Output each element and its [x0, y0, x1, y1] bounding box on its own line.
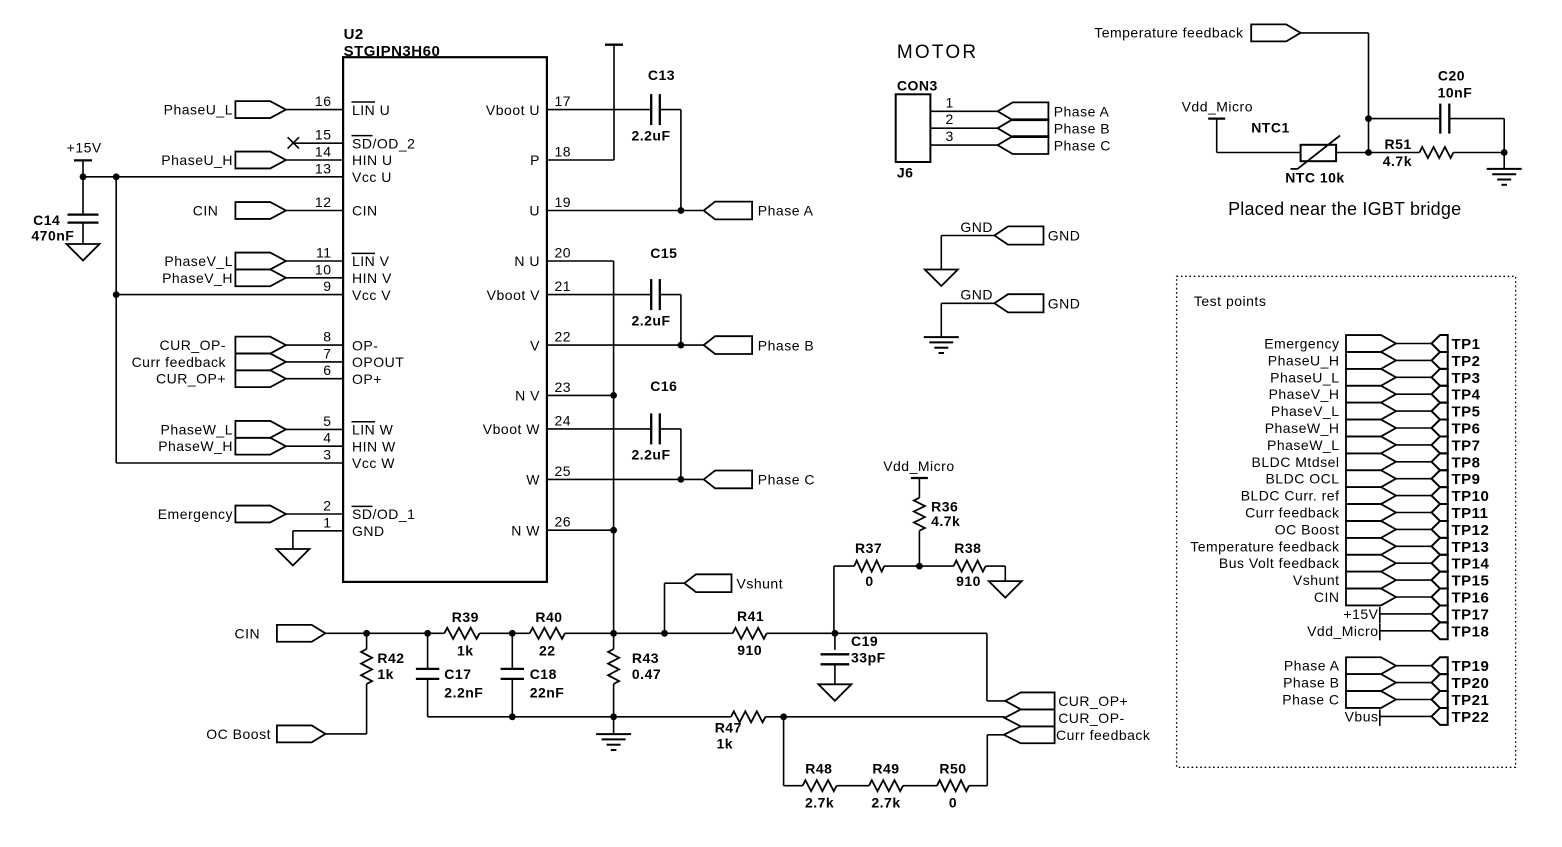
wire Curr feedback to pin 7 [286, 361, 343, 363]
IC U2 STGIPN3H60 body [343, 26, 547, 582]
svg-text:OC Boost: OC Boost [206, 726, 271, 742]
capacitor C13 2.2uF [631, 67, 675, 143]
svg-text:R41: R41 [737, 608, 764, 624]
svg-text:22nF: 22nF [530, 684, 565, 700]
svg-text:1k: 1k [717, 735, 734, 751]
junction +15V at C14 [80, 173, 87, 180]
wire main sense line segments [367, 632, 445, 634]
ground at pin 1 [276, 549, 309, 566]
svg-text:3: 3 [323, 447, 331, 463]
wire PhaseV_H to pin 10 [286, 277, 343, 279]
flag PhaseV_H (to pin 10) [162, 269, 286, 286]
svg-text:R49: R49 [872, 761, 899, 777]
flag PhaseW_L (to pin 5) [161, 421, 286, 438]
svg-text:N W: N W [511, 522, 540, 538]
flag PhaseW_H (to pin 4) [158, 438, 286, 455]
svg-text:Phase C: Phase C [1054, 137, 1111, 153]
flag CUR_OP+ [1005, 692, 1128, 709]
wire pin 1 GND stub [293, 530, 343, 532]
wire Temperature feedback to node [1301, 32, 1369, 34]
svg-text:2.7k: 2.7k [871, 795, 900, 811]
U2 pin 12 (CIN) number and name [315, 194, 378, 219]
resistor R36 4.7k [914, 498, 960, 531]
svg-text:R50: R50 [939, 761, 966, 777]
U2 pin 3 (Vcc W) number and name [323, 447, 395, 472]
test point TP21 (Phase C) [1282, 691, 1489, 709]
svg-text:Phase B: Phase B [1283, 675, 1339, 691]
svg-text:TP16: TP16 [1452, 590, 1490, 607]
svg-text:2.2nF: 2.2nF [444, 684, 483, 700]
U2 pin 6 (OP+) number and name [323, 362, 382, 387]
resistor R41 910 [733, 608, 767, 658]
svg-text:1: 1 [323, 514, 331, 530]
svg-text:CON3: CON3 [897, 77, 938, 93]
wire CUR_OP+ to pin 6 [286, 378, 343, 380]
svg-text:R39: R39 [452, 609, 479, 625]
svg-text:R42: R42 [377, 650, 404, 666]
svg-text:PhaseU_L: PhaseU_L [1270, 369, 1339, 385]
flag PhaseU_L (to pin 16) [164, 101, 286, 118]
test point TP18 (Vdd_Micro) [1307, 622, 1489, 640]
flag Curr feedback (to pin 7) [132, 353, 286, 370]
wire pin 18 (P) to rail [547, 159, 614, 161]
U2 pin 23 (N V) number and name [515, 379, 571, 404]
svg-text:Vcc U: Vcc U [352, 169, 392, 185]
svg-text:10nF: 10nF [1438, 85, 1473, 101]
thermistor NTC1 NTC 10k [1251, 119, 1345, 185]
test points dotted box [1177, 276, 1516, 767]
svg-text:23: 23 [555, 379, 572, 395]
svg-text:PhaseW_L: PhaseW_L [161, 421, 233, 437]
test point TP13 (Temperature feedback) [1190, 538, 1489, 556]
flag GND (triangle ground) [960, 219, 1080, 245]
power +15V symbol [67, 140, 102, 177]
wire R38 to ground [986, 565, 1006, 567]
wire Curr feedback to R50 [987, 734, 1004, 736]
svg-text:GND: GND [1048, 296, 1081, 312]
junction CIN/R42 [363, 630, 370, 637]
svg-text:Bus Volt feedback: Bus Volt feedback [1219, 555, 1340, 571]
test point TP14 (Bus Volt feedback) [1219, 555, 1490, 573]
test point TP10 (BLDC Curr. ref) [1241, 487, 1490, 505]
U2 pin 7 (OPOUT) number and name [323, 345, 404, 370]
test point TP3 (PhaseU_L) [1270, 369, 1480, 387]
resistor R50 0 [937, 761, 969, 811]
flag OC Boost [206, 725, 325, 742]
svg-text:Curr feedback: Curr feedback [1245, 505, 1340, 521]
svg-text:Vboot V: Vboot V [487, 287, 540, 303]
flag Temperature feedback [1094, 24, 1300, 41]
svg-text:GND: GND [352, 523, 385, 539]
svg-text:R43: R43 [632, 650, 659, 666]
test point TP12 (OC Boost) [1275, 521, 1490, 539]
CON3 pin 2 wire and number [930, 111, 997, 128]
test point TP1 (Emergency) [1264, 335, 1480, 353]
svg-text:11: 11 [316, 245, 332, 261]
wire PhaseV_L to pin 11 [286, 260, 343, 262]
ground below C19 [818, 684, 851, 701]
svg-text:NTC 10k: NTC 10k [1285, 170, 1345, 186]
capacitor C19 33pF [821, 633, 886, 665]
svg-text:TP10: TP10 [1452, 488, 1490, 505]
svg-text:Phase B: Phase B [1054, 120, 1110, 136]
svg-text:7: 7 [323, 345, 331, 361]
U2 pin 2 (SD/OD_1) number and name [323, 498, 415, 523]
wire C14 to ground [82, 223, 84, 244]
svg-text:Phase B: Phase B [758, 337, 814, 353]
wire pin 26 (N W) to N bus [547, 529, 614, 531]
flag CUR_OP- (to pin 8) [159, 337, 285, 354]
svg-text:Phase C: Phase C [1282, 692, 1339, 708]
svg-text:SD/OD_2: SD/OD_2 [352, 135, 415, 151]
svg-text:1k: 1k [457, 642, 474, 658]
resistor R43 0.47 (shunt) [608, 649, 661, 684]
svg-text:BLDC OCL: BLDC OCL [1265, 471, 1339, 487]
svg-text:6: 6 [323, 362, 331, 378]
svg-text:20: 20 [555, 245, 572, 261]
resistor R40 22 [530, 609, 565, 659]
svg-text:PhaseW_H: PhaseW_H [158, 438, 233, 454]
svg-text:0: 0 [865, 573, 873, 589]
svg-text:LIN V: LIN V [352, 253, 390, 269]
svg-text:GND: GND [960, 287, 993, 303]
svg-text:Phase A: Phase A [1054, 104, 1110, 120]
svg-text:TP2: TP2 [1452, 353, 1481, 370]
wire Vcc V branch to pin 9 [116, 294, 343, 296]
svg-text:J6: J6 [897, 165, 914, 181]
flag PhaseV_L (to pin 11) [164, 253, 286, 270]
capacitor C15 2.2uF [631, 245, 677, 329]
wire C13 to Phase A node [660, 109, 681, 111]
svg-text:3: 3 [946, 128, 954, 144]
svg-text:U: U [529, 203, 540, 219]
power Vdd_Micro (NTC) [1182, 99, 1253, 153]
svg-text:BLDC Curr. ref: BLDC Curr. ref [1241, 488, 1340, 504]
svg-text:C16: C16 [650, 378, 677, 394]
wire Emergency to pin 2 [286, 513, 343, 515]
junction C16 at W line [678, 476, 685, 483]
flag Curr feedback (bottom) [1004, 726, 1151, 743]
U2 pin 8 (OP-) number and name [323, 329, 378, 354]
ground below C14 [67, 244, 100, 261]
junction Vcc rail branch [113, 173, 120, 180]
CON3 pin 1 wire and number [930, 94, 997, 111]
svg-text:TP21: TP21 [1452, 692, 1490, 709]
svg-text:13: 13 [315, 160, 332, 176]
svg-text:4: 4 [323, 430, 331, 446]
power Vdd_Micro above R36 [883, 458, 954, 498]
svg-text:9: 9 [323, 278, 331, 294]
U2 pin 5 (LIN W) number and name [323, 413, 393, 438]
svg-text:Vdd_Micro: Vdd_Micro [883, 458, 954, 474]
svg-text:TP5: TP5 [1452, 404, 1481, 421]
connector CON3 / J6 [896, 77, 938, 180]
wire Vcc rail vertical [115, 177, 117, 463]
wire PhaseW_L to pin 5 [286, 428, 343, 430]
wire R42 leads [366, 633, 368, 649]
svg-text:STGIPN3H60: STGIPN3H60 [344, 43, 441, 60]
svg-text:CIN: CIN [1314, 589, 1340, 605]
wire PhaseW_H to pin 4 [286, 445, 343, 447]
svg-text:PhaseV_H: PhaseV_H [162, 270, 233, 286]
wire CIN to R42 node [325, 632, 366, 634]
svg-text:MOTOR: MOTOR [897, 42, 978, 63]
svg-text:HIN W: HIN W [352, 438, 396, 454]
svg-text:1: 1 [946, 94, 954, 110]
svg-text:R40: R40 [535, 609, 562, 625]
junction N W at bus [610, 527, 617, 534]
wire pin 22 (V) to Phase B flag [547, 344, 704, 346]
svg-text:33pF: 33pF [851, 649, 886, 665]
svg-text:SD/OD_1: SD/OD_1 [352, 506, 415, 522]
svg-text:18: 18 [555, 144, 572, 160]
wire C20 branch [1369, 118, 1441, 120]
svg-text:TP17: TP17 [1452, 606, 1490, 623]
capacitor C20 10nF [1438, 68, 1473, 134]
svg-text:HIN U: HIN U [352, 152, 393, 168]
no-connect X on pin 15 [288, 137, 299, 148]
resistor R47 1k [715, 711, 766, 751]
U2 pin 13 (Vcc U) number and name [315, 160, 392, 185]
U2 pin 1 (GND) number and name [323, 514, 384, 539]
flag Phase B [704, 336, 815, 354]
wire PhaseU_H to pin 14 [286, 159, 343, 161]
svg-text:Emergency: Emergency [1264, 336, 1339, 352]
test point TP22 (Vbus) [1345, 708, 1490, 726]
svg-text:TP3: TP3 [1452, 370, 1481, 387]
svg-text:2.2uF: 2.2uF [631, 127, 670, 143]
wire +15V rail to Vcc U (pin 13) [83, 176, 343, 178]
ground bars for GND flag 2 [924, 336, 959, 338]
junction temp feedback at NTC line [1365, 149, 1372, 156]
svg-text:16: 16 [315, 93, 332, 109]
svg-text:CIN: CIN [193, 203, 219, 219]
resistor R51 4.7k [1383, 136, 1454, 169]
svg-text:4.7k: 4.7k [1383, 153, 1412, 169]
wire GND flag 1 [941, 235, 994, 237]
svg-text:470nF: 470nF [31, 228, 74, 244]
svg-text:N V: N V [515, 388, 540, 404]
svg-text:OPOUT: OPOUT [352, 354, 404, 370]
svg-text:910: 910 [737, 642, 762, 658]
junction C20/R51 at ground [1501, 149, 1508, 156]
svg-text:22: 22 [539, 642, 556, 658]
svg-text:R37: R37 [855, 540, 882, 556]
capacitor C16 2.2uF [631, 378, 677, 462]
svg-text:C13: C13 [648, 67, 675, 83]
svg-text:NTC1: NTC1 [1251, 119, 1290, 135]
ground below R38 [989, 581, 1022, 598]
svg-text:C15: C15 [650, 245, 677, 261]
junction R47/R48 node [780, 713, 787, 720]
flag CIN (to pin 12) [193, 202, 286, 219]
wire R51 to ground node [1453, 152, 1504, 154]
svg-text:C14: C14 [33, 212, 60, 228]
junction Vshunt tap [661, 630, 668, 637]
U2 pin 4 (HIN W) number and name [323, 430, 396, 455]
svg-text:Vboot U: Vboot U [486, 102, 540, 118]
junction Vcc V branch [113, 291, 120, 298]
svg-text:2.2uF: 2.2uF [631, 447, 670, 463]
test point TP7 (PhaseW_L) [1267, 436, 1481, 454]
svg-text:Vshunt: Vshunt [737, 575, 784, 591]
svg-text:PhaseV_H: PhaseV_H [1269, 386, 1340, 402]
test point TP6 (PhaseW_H) [1265, 420, 1481, 438]
svg-text:Vcc W: Vcc W [352, 455, 395, 471]
svg-text:Temperature feedback: Temperature feedback [1190, 538, 1340, 554]
svg-text:C17: C17 [444, 666, 471, 682]
svg-text:25: 25 [555, 463, 572, 479]
svg-text:10: 10 [315, 261, 332, 277]
svg-text:LIN W: LIN W [352, 422, 394, 438]
test point TP4 (PhaseV_H) [1269, 386, 1481, 404]
svg-text:R48: R48 [805, 761, 832, 777]
svg-text:R36: R36 [931, 498, 958, 514]
svg-text:Vdd_Micro: Vdd_Micro [1182, 99, 1253, 115]
svg-text:5: 5 [323, 413, 331, 429]
svg-text:PhaseW_H: PhaseW_H [1265, 420, 1340, 436]
svg-text:TP13: TP13 [1452, 539, 1490, 556]
svg-text:Phase C: Phase C [758, 472, 815, 488]
capacitor C17 2.2nF [416, 666, 483, 700]
ground at R51/C20 [1503, 153, 1505, 169]
svg-text:17: 17 [555, 93, 572, 109]
U2 pin 25 (W) number and name [526, 463, 571, 488]
svg-text:21: 21 [555, 278, 572, 294]
svg-text:15: 15 [315, 127, 332, 143]
svg-text:2: 2 [946, 111, 954, 127]
svg-text:4.7k: 4.7k [931, 513, 960, 529]
svg-text:TP14: TP14 [1452, 556, 1490, 573]
svg-text:Placed near the IGBT bridge: Placed near the IGBT bridge [1228, 199, 1461, 219]
wire pin 17 (Vboot U) to C13 [547, 109, 651, 111]
wire C19 to ground [834, 664, 836, 684]
flag Vshunt [684, 574, 783, 592]
svg-text:PhaseW_L: PhaseW_L [1267, 437, 1339, 453]
svg-text:C19: C19 [851, 633, 878, 649]
svg-text:Curr feedback: Curr feedback [132, 354, 227, 370]
svg-text:TP6: TP6 [1452, 421, 1481, 438]
wire C18 leads [511, 633, 513, 669]
svg-text:V: V [530, 337, 540, 353]
svg-text:R38: R38 [954, 540, 981, 556]
flag Phase C (motor) [998, 136, 1111, 154]
svg-text:OP+: OP+ [352, 371, 382, 387]
flag Emergency (to pin 2) [158, 506, 286, 523]
svg-text:C18: C18 [530, 666, 557, 682]
junction C15 at V line [678, 342, 685, 349]
svg-text:C20: C20 [1438, 68, 1465, 84]
svg-text:TP19: TP19 [1452, 658, 1490, 675]
svg-text:CIN: CIN [234, 625, 260, 641]
flag GND (bar ground) [960, 287, 1080, 313]
U2 pin 22 (V) number and name [530, 329, 571, 354]
svg-text:TP22: TP22 [1452, 709, 1490, 726]
svg-text:CUR_OP+: CUR_OP+ [156, 371, 226, 387]
svg-text:TP8: TP8 [1452, 454, 1481, 471]
svg-text:TP18: TP18 [1452, 623, 1490, 640]
wire Vdd_Micro to NTC1 [1217, 152, 1301, 154]
resistor R48 2.7k [803, 761, 837, 811]
svg-text:PhaseU_L: PhaseU_L [164, 102, 233, 118]
U2 pin 19 (U) number and name [529, 194, 571, 219]
wire +15V to C14 [82, 177, 84, 215]
wire pin 23 (N V) to N bus [547, 394, 614, 396]
resistor R42 1k [361, 649, 404, 684]
svg-text:Phase A: Phase A [758, 203, 814, 219]
wire R37 branch vertical [833, 566, 835, 633]
flag Phase A (motor) [998, 102, 1110, 120]
svg-text:+15V: +15V [1343, 606, 1378, 622]
svg-text:HIN V: HIN V [352, 270, 392, 286]
svg-text:2.7k: 2.7k [805, 795, 834, 811]
svg-text:+15V: +15V [67, 140, 102, 156]
wire pin 25 (W) to Phase C flag [547, 478, 704, 480]
resistor R38 910 [954, 540, 986, 589]
svg-text:R47: R47 [715, 719, 742, 735]
test point TP16 (CIN) [1314, 589, 1489, 607]
wire pin 19 (U) to Phase A flag [547, 210, 704, 212]
svg-text:N U: N U [514, 253, 540, 269]
wire pin 15 stub [293, 142, 343, 144]
junction C18 bottom [509, 713, 516, 720]
svg-text:2: 2 [323, 498, 331, 514]
svg-text:CIN: CIN [352, 203, 378, 219]
U2 pin 18 (P) number and name [530, 144, 571, 169]
svg-text:W: W [526, 472, 540, 488]
junction temp feedback at C20 line [1365, 115, 1372, 122]
svg-text:U2: U2 [344, 26, 364, 43]
svg-text:1k: 1k [377, 666, 394, 682]
wire C16 to Phase C node [660, 428, 681, 430]
junction C19/R37 node [832, 630, 839, 637]
wire R36 bottom lead [918, 531, 920, 566]
svg-text:TP11: TP11 [1452, 505, 1489, 522]
svg-text:Test points: Test points [1194, 293, 1266, 309]
svg-text:Curr feedback: Curr feedback [1056, 727, 1151, 743]
svg-text:CUR_OP-: CUR_OP- [159, 337, 226, 353]
junction R36/R37/R38 [916, 563, 923, 570]
svg-text:PhaseV_L: PhaseV_L [164, 253, 233, 269]
svg-text:LIN U: LIN U [352, 102, 390, 118]
wire CIN to pin 12 [286, 210, 343, 212]
wire N bus vertical [613, 261, 615, 633]
svg-text:12: 12 [315, 194, 332, 210]
wire Vshunt tap [664, 583, 666, 633]
flag Phase C [704, 471, 815, 489]
flag Phase A [704, 202, 814, 220]
svg-text:24: 24 [555, 412, 572, 428]
svg-text:TP20: TP20 [1452, 675, 1490, 692]
svg-text:CUR_OP-: CUR_OP- [1058, 710, 1125, 726]
wire pin 21 (Vboot V) to C15 [547, 294, 651, 296]
flag CUR_OP+ (to pin 6) [156, 370, 286, 387]
capacitor C14 470nF [31, 212, 98, 244]
flag Phase B (motor) [998, 119, 1111, 137]
svg-text:CUR_OP+: CUR_OP+ [1058, 693, 1128, 709]
test point TP8 (BLDC Mtdsel) [1252, 453, 1481, 471]
svg-text:Emergency: Emergency [158, 506, 233, 522]
wire CUR_OP- to pin 8 [286, 344, 343, 346]
U2 pin 20 (N U) number and name [514, 245, 571, 270]
svg-text:BLDC Mtdsel: BLDC Mtdsel [1252, 454, 1340, 470]
junction R43 bottom at ground line [610, 713, 617, 720]
wire pin 20 (N U) to N bus [547, 260, 614, 262]
wire R43 leads [613, 633, 615, 649]
svg-text:PhaseU_H: PhaseU_H [161, 152, 233, 168]
capacitor C18 22nF [501, 666, 565, 700]
test point TP17 (+15V) [1343, 605, 1489, 623]
